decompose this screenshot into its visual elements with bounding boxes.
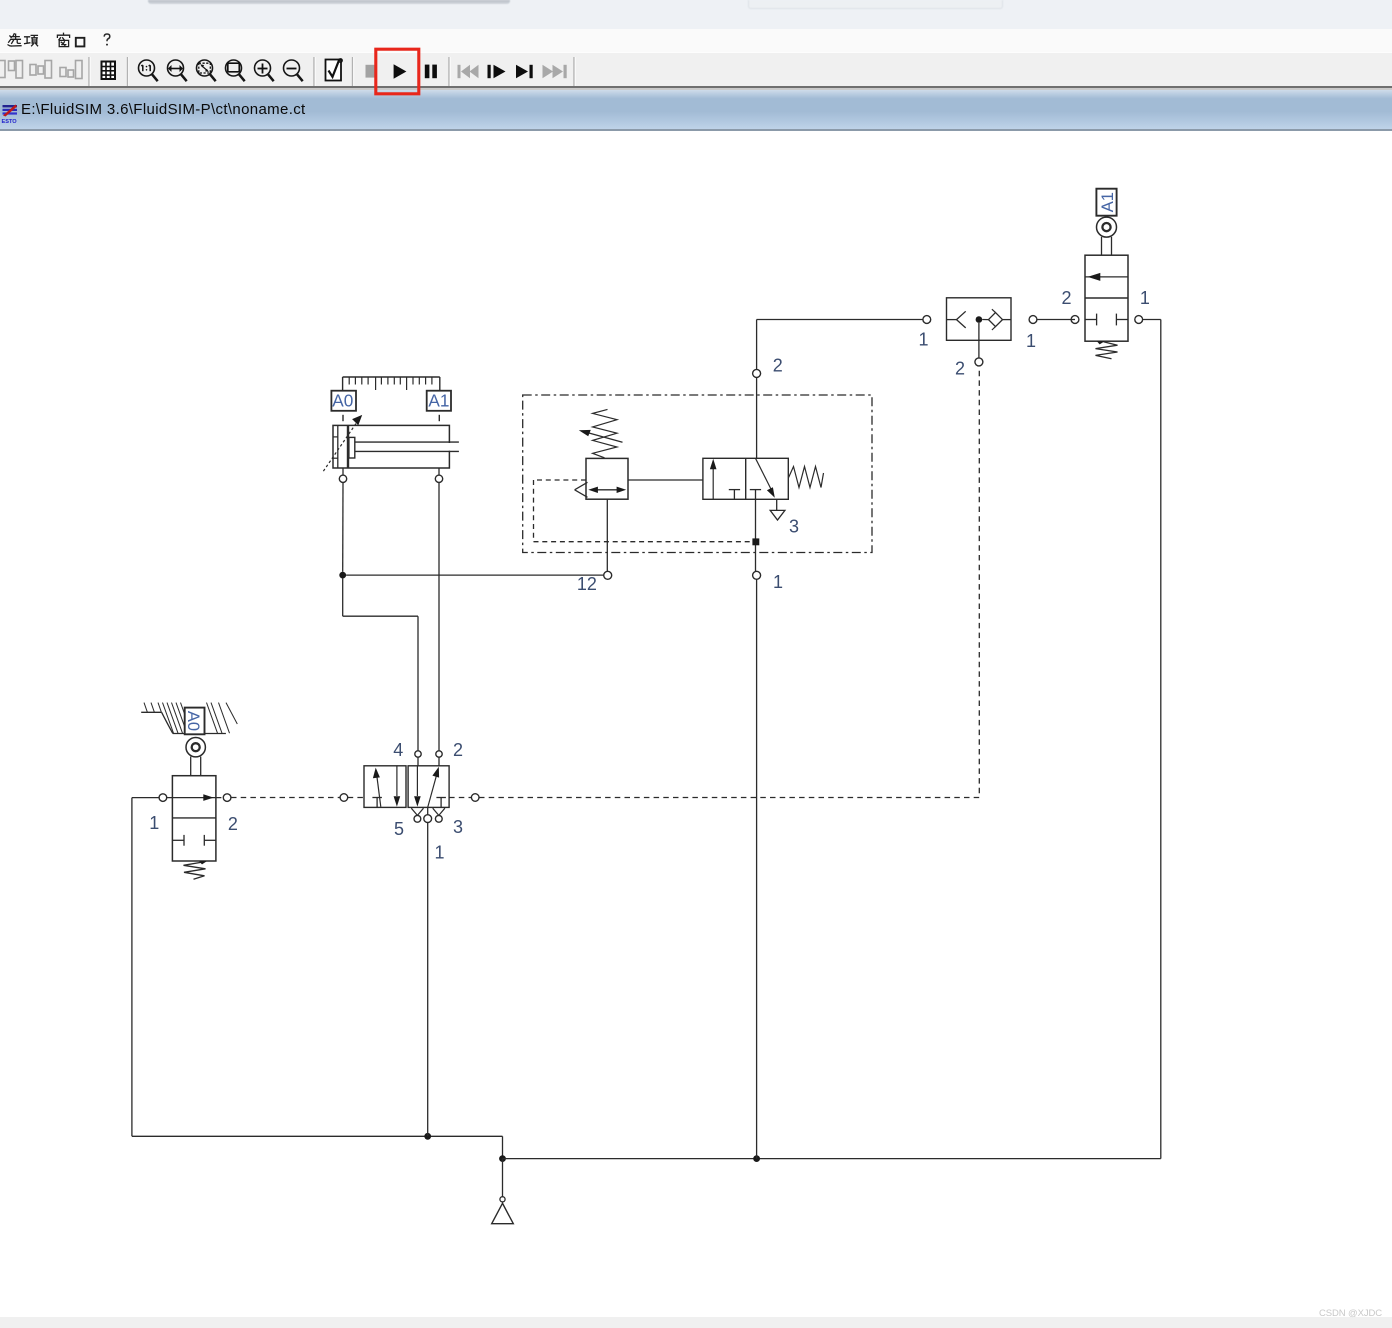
junction 5/2 port1 at bottom rail <box>424 1133 431 1140</box>
bottom rail left segment <box>132 1135 503 1137</box>
svg-text:2: 2 <box>228 814 238 834</box>
label 12 <box>577 574 597 594</box>
shuttle valve body <box>947 298 1012 341</box>
wire 5/2 port1 down <box>427 823 429 1137</box>
shuttle internal lines <box>947 319 1012 321</box>
A0 3/2 valve body <box>172 776 216 861</box>
A1 return spring <box>1096 341 1118 359</box>
position label box A1 (cylinder) <box>427 390 451 411</box>
A0 open flow path 1->2 <box>167 794 222 801</box>
menu labels <box>8 33 84 46</box>
wire cylinder right port down to 5/2 valve port 2 <box>438 468 440 475</box>
pilot operated 3/2 valve (in composite) <box>703 458 788 499</box>
wire shuttle right to A1 valve <box>1037 319 1071 321</box>
svg-text:1: 1 <box>434 843 444 863</box>
A1 port circles <box>1071 316 1143 324</box>
svg-text:3: 3 <box>789 517 799 537</box>
wire A1 port2 to shuttle <box>1071 319 1075 321</box>
A1 3/2 valve body <box>1085 255 1128 341</box>
svg-text:2: 2 <box>1061 288 1071 308</box>
5/2 right position: flow arrows and blocked port <box>414 766 446 808</box>
5/2 pilot port right <box>449 794 979 802</box>
svg-text:A1: A1 <box>428 390 449 410</box>
svg-text:2: 2 <box>453 740 463 760</box>
wire A0 port 1 to left riser <box>132 797 159 799</box>
svg-text:3: 3 <box>453 817 463 837</box>
shuttle bottom outlet <box>975 323 983 366</box>
sequence valve output to port 12 <box>604 499 612 579</box>
A1 plunger stem <box>1102 237 1112 255</box>
wire top rail corner to shuttle valve <box>757 319 923 321</box>
5/2 port 1 <box>424 807 432 822</box>
shuttle port circles <box>923 316 1037 324</box>
A0 blocked ports (lower square) <box>172 835 216 846</box>
svg-text:5: 5 <box>394 819 404 839</box>
A0 return spring <box>184 861 207 879</box>
position label box A0 (cylinder) <box>331 390 356 411</box>
composite port 2 (top) <box>753 320 761 459</box>
right riser up to A1 valve <box>1160 320 1162 1159</box>
5/2 valve V1 body <box>364 766 449 808</box>
cylinder (double-acting, with adjustable cushioning arrow) <box>333 425 459 468</box>
compressed air supply <box>492 1159 514 1224</box>
label 2 (composite top port) <box>773 356 783 376</box>
svg-text:1: 1 <box>149 813 159 833</box>
svg-text:ESTO: ESTO <box>2 119 18 125</box>
5/2 left position: flow arrows and blocked port <box>372 766 400 808</box>
stub marks below label boxes <box>343 415 439 421</box>
adjustable pressure sequence valve Z1 (spring + box) <box>575 409 628 499</box>
svg-text:1: 1 <box>918 330 928 350</box>
bottom rail corner down <box>502 1136 504 1158</box>
internal pilot line (dashed) of sequence valve <box>534 480 754 542</box>
A0 port circles <box>159 794 231 802</box>
junction supply tee <box>499 1155 506 1162</box>
connection line sequence valve to pilot 3/2 <box>628 479 703 481</box>
junction node (cylinder/sequence-valve tee) <box>339 572 346 579</box>
5/2 exhaust V port 5 <box>411 808 423 822</box>
shuttle ball (diamond) <box>989 309 1003 330</box>
svg-text:1: 1 <box>1140 288 1150 308</box>
label 3 (composite exhaust) <box>789 517 799 537</box>
wire junction to port 12 of composite <box>346 574 604 576</box>
5/2 exhaust V port 3 <box>433 808 445 822</box>
position label box A0 (valve) <box>184 708 204 735</box>
svg-text:2: 2 <box>773 356 783 376</box>
cylinder port circles <box>339 475 442 482</box>
position label box A1 (valve) <box>1096 189 1117 216</box>
svg-text:A1: A1 <box>1099 192 1117 212</box>
composite enclosure (dash-dot) <box>523 395 872 553</box>
svg-text:12: 12 <box>577 574 597 594</box>
toolbar icons <box>0 61 82 79</box>
pilot 3/2 exhaust with silencer triangle <box>770 499 785 520</box>
pilot 3/2 return spring (right) <box>789 467 824 488</box>
svg-text:1: 1 <box>773 572 783 592</box>
left riser down <box>131 798 133 1137</box>
5/2 valve port circles 4 and 2 <box>415 751 442 757</box>
shuttle left seat <box>957 311 966 328</box>
A1 flow path arrow (upper square) <box>1085 273 1128 281</box>
svg-text:2: 2 <box>955 359 965 379</box>
A0 roller <box>186 738 205 757</box>
5/2 pilot port left <box>231 794 364 802</box>
label 1 (composite bottom port) <box>773 572 783 592</box>
cam ramp with hatching (A0 trip cam) <box>141 703 237 734</box>
port stubs into valve body <box>418 757 439 766</box>
A0 plunger stem <box>191 757 201 776</box>
document icon (title bar) <box>2 105 18 125</box>
svg-text:4: 4 <box>393 740 403 760</box>
wire junction down and right to 5/2 valve port 4 <box>342 579 344 617</box>
5/2 port labels <box>393 740 403 760</box>
A0 port labels <box>149 813 159 833</box>
shuttle labels <box>918 330 928 350</box>
svg-text:A0: A0 <box>184 711 202 731</box>
A1 roller <box>1097 217 1117 237</box>
A1 port labels <box>1061 288 1071 308</box>
bottom rail right segment <box>503 1158 1161 1160</box>
cushioning adjustment arrow (dashed diagonal) <box>323 415 362 471</box>
svg-text:1: 1 <box>1026 331 1036 351</box>
shuttle internal junction dot <box>976 316 983 323</box>
A1 blocked ports (lower square) <box>1085 314 1128 326</box>
pilot line up to shuttle valve (dashed riser) <box>978 370 980 793</box>
valve bottom line to port 1 with junction square <box>752 499 760 1158</box>
svg-text:A0: A0 <box>332 390 353 410</box>
junction composite port1 riser <box>753 1155 760 1162</box>
ruler scale above cylinder <box>343 377 440 390</box>
wire cylinder left port down to junction <box>342 468 344 475</box>
